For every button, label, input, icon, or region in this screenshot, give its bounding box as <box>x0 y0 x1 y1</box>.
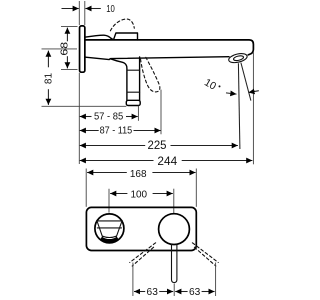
body collar under spout <box>110 59 127 100</box>
svg-text:100: 100 <box>131 189 148 200</box>
dimension 68 arrow up <box>66 28 68 42</box>
lever swing dashed left <box>130 243 156 263</box>
side view: wall-line extension left <box>78 1 80 25</box>
handle swung-out dashed <box>141 57 160 92</box>
extension spout tip down <box>252 52 254 165</box>
svg-text:63: 63 <box>189 287 201 298</box>
svg-text:10: 10 <box>106 4 115 15</box>
dimension 244 arrows <box>80 160 154 162</box>
front view: extension 100 right <box>173 189 175 214</box>
svg-text:81: 81 <box>43 73 54 84</box>
svg-text:87 - 115: 87 - 115 <box>100 126 133 137</box>
extension dashed-handle down <box>160 90 162 135</box>
dimension 68 extension bottom <box>61 68 78 70</box>
angle arrow left <box>226 93 237 94</box>
handle lever flat (closed) <box>111 33 137 40</box>
dimension 63 right arrows <box>175 291 187 293</box>
svg-text:63: 63 <box>147 287 159 298</box>
dimension 81 arrow up <box>47 51 49 68</box>
handle shaft right edge <box>139 57 141 100</box>
handle circle front <box>159 214 190 245</box>
spout outlet chord mid <box>97 227 121 229</box>
aerator inner <box>233 55 244 61</box>
extension wall plate down <box>78 73 80 164</box>
lever swing dashed right <box>192 243 218 263</box>
dimension 10 left arrow <box>62 8 79 10</box>
side view: wall-line extension right <box>84 1 86 25</box>
spout outlet side left <box>97 221 103 237</box>
spout top outline <box>86 40 254 55</box>
spout outlet side right <box>116 221 122 237</box>
dimension 100 arrows <box>110 193 127 195</box>
aerator outer <box>228 52 248 64</box>
spout outlet bottom curve <box>103 236 117 237</box>
extension 63 middle <box>173 283 175 296</box>
svg-text:244: 244 <box>157 155 177 168</box>
angle line 10 deg <box>241 63 251 101</box>
svg-text:225: 225 <box>148 139 167 152</box>
dimension 168 arrows <box>87 172 127 174</box>
handle shaft joint line lower <box>127 91 140 93</box>
dimension 63 left arrows <box>134 291 145 293</box>
handle open position dashed arc <box>110 19 134 31</box>
dimension 68 arrow down <box>66 56 68 68</box>
dimension 87-115 arrows <box>80 130 99 132</box>
wall plate side view <box>80 26 85 72</box>
extension 63 left <box>132 263 134 297</box>
dimension 10 right arrow <box>85 8 100 10</box>
extension handle down <box>137 106 139 121</box>
spout underside <box>86 57 229 60</box>
dimension 81 arrow down <box>47 89 49 105</box>
dimension 81 extension bottom long <box>42 105 127 107</box>
svg-text:168: 168 <box>130 169 147 180</box>
handle shaft joint line upper <box>127 69 140 71</box>
spout outlet chord top <box>97 220 123 222</box>
svg-text:57 - 85: 57 - 85 <box>94 111 123 122</box>
wall plate front view <box>86 207 196 250</box>
angle line vertical (225 extension) <box>238 63 240 149</box>
lever front <box>172 244 177 283</box>
handle foot <box>126 100 140 105</box>
dimension 81 extension top <box>42 48 78 50</box>
dimension 57-85 arrows <box>80 116 92 118</box>
spout outlet circle <box>95 214 124 243</box>
angle arrow right <box>248 91 258 93</box>
front view: extension 168 left <box>85 169 87 207</box>
spout outlet dark band <box>101 238 118 241</box>
front view: extension 168 right <box>195 169 197 207</box>
dimension 68 extension top <box>61 26 78 28</box>
dimension 225 arrows <box>80 145 146 147</box>
extension 63 right <box>215 263 217 297</box>
handle base wedge on spout <box>86 35 112 38</box>
front view: extension 100 left <box>108 189 110 213</box>
